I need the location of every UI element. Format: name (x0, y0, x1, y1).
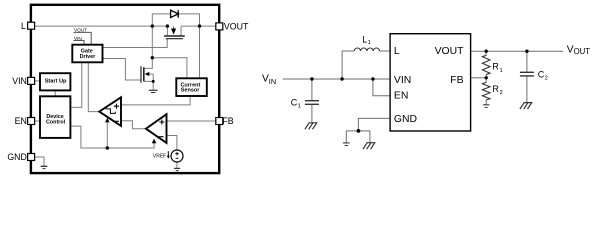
svg-text:VREF: VREF (153, 153, 166, 159)
svg-text:VIN: VIN (12, 76, 27, 86)
svg-text:VOUT: VOUT (435, 46, 465, 57)
svg-text:Control: Control (46, 119, 66, 125)
svg-text:VIN: VIN (74, 36, 82, 41)
svg-text:VOUT: VOUT (567, 44, 590, 56)
svg-text:EN: EN (394, 90, 408, 101)
svg-text:C2: C2 (538, 69, 548, 81)
svg-text:Sensor: Sensor (181, 88, 201, 94)
svg-text:FB: FB (222, 116, 233, 126)
svg-text:EN: EN (15, 116, 27, 126)
svg-text:L: L (21, 21, 26, 31)
svg-text:L1: L1 (362, 34, 371, 46)
svg-text:VIN: VIN (262, 73, 276, 86)
svg-text:R1: R1 (492, 62, 502, 74)
svg-text:Driver: Driver (80, 54, 96, 60)
svg-text:Start Up: Start Up (45, 78, 67, 84)
svg-text:VOUT: VOUT (224, 22, 249, 32)
svg-text:C1: C1 (291, 97, 301, 109)
svg-text:VIN: VIN (394, 75, 411, 86)
svg-text:VOUT: VOUT (74, 28, 87, 33)
svg-text:GND: GND (394, 114, 417, 125)
svg-text:R2: R2 (492, 84, 502, 96)
svg-text:GND: GND (7, 152, 27, 162)
svg-text:L: L (394, 46, 400, 57)
svg-text:FB: FB (450, 75, 463, 86)
